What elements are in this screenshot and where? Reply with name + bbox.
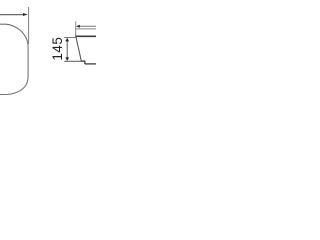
height dim bottom extension line [64, 60, 81, 62]
basin top view outline (cut off at left image edge) [0, 24, 28, 94]
basin side view: rim bottom / counter line (dark) [75, 35, 96, 37]
side-view left extension line [75, 22, 77, 37]
basin side view: step down [84, 61, 86, 64]
height dimension 145: shaft [66, 41, 68, 59]
top dimension line (width dim of top view, cut at left edge) [0, 14, 24, 16]
basin side view: front slant edge [76, 37, 81, 61]
top dimension arrowhead (right) [23, 13, 28, 16]
top dimension extension line [28, 7, 30, 44]
side-view width dim arrowhead (left) [76, 25, 80, 28]
basin side view: bottom flat [81, 60, 85, 62]
basin side view: lower bottom edge (cut at right) [85, 63, 96, 65]
basin side view: rim top edge [76, 28, 96, 30]
height dim arrowhead down [65, 57, 69, 61]
svg-text:145: 145 [50, 37, 65, 61]
height dim arrowhead up [65, 38, 69, 42]
height dim top extension line [64, 37, 75, 39]
background [0, 0, 96, 96]
side-view width dimension line (cut at right edge) [80, 25, 97, 27]
